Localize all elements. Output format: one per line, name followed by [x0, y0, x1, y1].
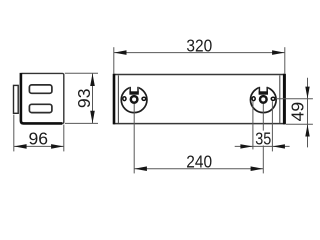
slot 1 (top vent)	[29, 85, 52, 93]
svg-text:93: 93	[74, 88, 94, 108]
dimension 320 line	[114, 52, 285, 54]
thick right end edge	[283, 74, 286, 125]
extension line from right socket centre	[262, 104, 264, 173]
slot 2 (bottom vent)	[29, 104, 52, 112]
dimension 35 label	[256, 131, 270, 146]
svg-text:96: 96	[29, 128, 49, 148]
svg-text:35: 35	[255, 129, 271, 149]
dimension 49 line	[307, 78, 309, 148]
end-cap protrusion (side view)	[14, 85, 19, 113]
svg-text:240: 240	[186, 151, 212, 171]
thick left end edge	[113, 74, 116, 125]
dimension 240 line	[134, 168, 263, 170]
extension line from left socket centre	[133, 104, 135, 173]
inner end-cap line right	[279, 75, 281, 123]
side view body	[21, 73, 64, 124]
dimension 49 extension lines	[276, 98, 313, 100]
dimension 35 line	[235, 145, 290, 147]
lamp socket U1 (left)	[121, 84, 147, 113]
dimension 93 extension lines	[65, 72, 98, 74]
dimension 96 line	[14, 145, 64, 147]
dimension 93 line	[92, 73, 94, 123]
lamp socket U2 (right)	[250, 84, 276, 113]
dimension 96 extension lines	[13, 115, 15, 152]
extension line from right socket right hole	[271, 101, 273, 151]
svg-text:320: 320	[186, 35, 212, 55]
inner end-cap line left	[117, 75, 119, 123]
fixture body rectangle	[114, 75, 285, 124]
svg-text:49: 49	[288, 102, 308, 122]
dimension 320 extension lines	[113, 47, 115, 74]
extension line from right socket left hole	[252, 101, 254, 149]
